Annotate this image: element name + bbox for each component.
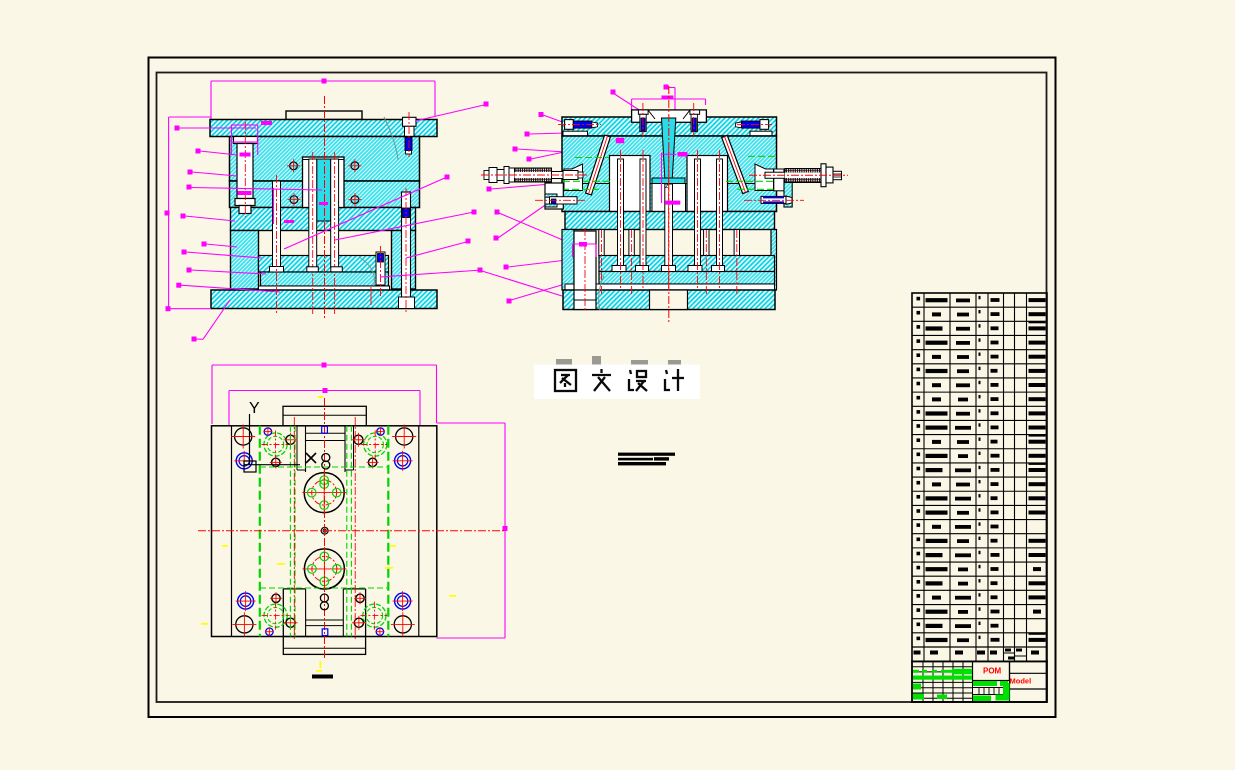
view2 right tie rod bbox=[749, 164, 848, 187]
view1 magenta vert line bbox=[273, 188, 275, 224]
view1 top boss plate bbox=[286, 111, 362, 120]
BOM table column lines bbox=[924, 293, 1027, 661]
view1 ejector retainer plate bbox=[259, 256, 389, 273]
view2 bottom notch bbox=[650, 290, 688, 310]
view3 yellow marks bbox=[201, 396, 456, 672]
view3 inner plate edges bbox=[232, 426, 419, 637]
view1 magenta tag e bbox=[284, 220, 294, 223]
view3 top slider block bbox=[283, 406, 366, 426]
leader bracket left bbox=[169, 117, 211, 309]
view3 bottom slider block bbox=[283, 589, 365, 637]
view2 left pin pocket bbox=[564, 164, 583, 191]
view1 magenta tag c bbox=[238, 191, 252, 195]
view1 magenta tag b bbox=[240, 153, 251, 157]
view1 core sleeve pin left bbox=[309, 152, 317, 316]
view1 gray arc top right bbox=[384, 117, 398, 160]
view1 core insert bbox=[303, 157, 345, 221]
svg-text:POM: POM bbox=[983, 667, 1002, 676]
view1 right spacer block bbox=[392, 231, 416, 290]
svg-text:Model: Model bbox=[1010, 677, 1032, 686]
view2 ejector base plate bbox=[599, 272, 775, 285]
view1 small screw right bbox=[376, 246, 385, 298]
view1 fixed plate A bbox=[230, 137, 420, 182]
view2 bottom clamping plate bbox=[563, 290, 775, 310]
view2 magenta top dim bbox=[613, 88, 706, 123]
view2 gray curve bbox=[599, 276, 604, 310]
view2 right ledge bbox=[750, 131, 772, 136]
view1 top clamping plate bbox=[210, 120, 437, 137]
title block left grid bbox=[912, 661, 973, 702]
watermark hanzi wen bbox=[592, 369, 611, 391]
view3 center point bbox=[321, 527, 328, 534]
view2 right bracket bbox=[784, 169, 792, 207]
view3 bottom extension plate bbox=[283, 637, 365, 655]
view3 green boss circles bbox=[262, 431, 390, 630]
watermark hanzi ji bbox=[665, 369, 684, 391]
view1 magenta dimension box bbox=[211, 81, 435, 136]
view3 small screw circles bbox=[270, 433, 379, 630]
view1 return pin bbox=[399, 188, 415, 312]
view1 sleeve pin feet bbox=[307, 267, 343, 272]
view2 top clamping plate bbox=[562, 117, 777, 136]
view3 magenta inner dim bbox=[229, 391, 420, 426]
view2 cavity insert right bbox=[687, 156, 728, 212]
title block middle grid bbox=[973, 681, 1010, 695]
view3 guide pillar holes bbox=[231, 425, 416, 637]
view3 blue gate marks bbox=[322, 426, 328, 635]
view1 stray red segment bbox=[370, 287, 372, 305]
view1 support plate bbox=[231, 208, 416, 231]
view2 ejector pins bbox=[618, 159, 723, 266]
view2 extra pin centerlines bbox=[602, 230, 737, 296]
view2 dim squares bbox=[611, 85, 669, 95]
view1 left spacer block bbox=[231, 231, 259, 290]
view3 blue bush holes bbox=[234, 451, 412, 611]
view2 center puller pocket bbox=[652, 184, 686, 212]
svg-text:Y: Y bbox=[249, 400, 260, 417]
view1 moving plate B bbox=[230, 181, 420, 208]
view1 core sleeve pin right bbox=[331, 152, 339, 316]
view2 right horizontal bolt bbox=[736, 120, 772, 130]
view2 main centerline bbox=[668, 86, 670, 322]
leader squares center column bbox=[445, 102, 544, 304]
view2 sprue bushing plate bbox=[632, 110, 707, 122]
view1 center line bbox=[324, 96, 326, 318]
view2 parting line bbox=[562, 183, 777, 185]
view3 horizontal centerline bbox=[198, 530, 505, 532]
view2 support plate bbox=[565, 212, 775, 230]
view2 A and B plate block bbox=[562, 136, 777, 212]
view3 small blue circles bbox=[263, 427, 385, 636]
view2 cavity insert left bbox=[610, 156, 651, 212]
view1 ejector base plate bbox=[261, 272, 389, 286]
view2 right angled pin bbox=[722, 135, 749, 193]
view1 magenta pillar callout box bbox=[232, 125, 258, 155]
view3 vertical centerline bbox=[324, 398, 326, 660]
BOM table row lines bbox=[912, 307, 1047, 647]
view3 datum Y bbox=[244, 400, 300, 472]
view3 magenta outer dim bbox=[212, 365, 505, 638]
watermark hanzi she bbox=[629, 370, 647, 391]
view2 pillar magenta callout bbox=[573, 242, 597, 257]
title block frame bbox=[912, 661, 1047, 702]
view1 bottom rail bbox=[259, 286, 390, 291]
view2 sprue cone bbox=[652, 118, 685, 184]
BOM header row bbox=[912, 647, 1047, 660]
leader lines center bbox=[284, 105, 616, 300]
view2 dim tag bbox=[662, 96, 674, 100]
leader lines left bbox=[179, 128, 322, 339]
BOM table outer frame bbox=[912, 293, 1047, 661]
title block POM box bbox=[973, 661, 1010, 680]
view2 right notch bbox=[774, 169, 784, 191]
watermark hanzi tu bbox=[555, 370, 576, 391]
svg-text:z: z bbox=[665, 183, 669, 190]
view2 angled pin magenta tag bbox=[616, 138, 624, 143]
view1 guide pillar bbox=[234, 122, 258, 217]
view2 right lower bolt bbox=[744, 196, 804, 204]
view3 green guide lines bbox=[260, 426, 389, 637]
view3 red ejector lines bbox=[294, 417, 355, 641]
leader squares left column bbox=[165, 126, 207, 342]
view3 inner dim square bbox=[323, 388, 328, 393]
view3 top slider channel bbox=[297, 426, 354, 472]
view2 left tie rod bbox=[481, 167, 589, 184]
view3 top locating ring bbox=[302, 471, 346, 515]
view2 left lower bracket bbox=[535, 183, 586, 209]
view2 left vertical screw bbox=[638, 103, 648, 137]
view2 support pillar bbox=[574, 228, 596, 311]
view1 bottom clamping plate bbox=[211, 290, 437, 309]
view1 screw hole circles bbox=[287, 159, 361, 206]
view3 section mark bbox=[312, 675, 333, 679]
view2 bottom rail bbox=[565, 284, 775, 290]
view2 right pin pocket bbox=[755, 164, 774, 191]
view2 ejector retainer plate bbox=[599, 256, 775, 272]
view2 left ledge bbox=[563, 131, 588, 136]
view2 right wall bbox=[771, 230, 777, 291]
view3 bottom fig8 bbox=[320, 594, 328, 610]
view3 outer dim squares bbox=[322, 363, 508, 532]
view1 gray arc bottom bbox=[359, 257, 374, 285]
note text bars bbox=[618, 453, 675, 466]
view2 green level lines bbox=[562, 156, 777, 189]
outer border frame bbox=[149, 58, 1056, 718]
view3 bottom locating ring bbox=[302, 547, 346, 591]
view2 pin feet bbox=[612, 266, 725, 272]
view1 magenta tag a bbox=[261, 121, 272, 125]
view2 sprue magenta callout bbox=[662, 152, 688, 205]
watermark gray glyph tops bbox=[556, 356, 681, 365]
view2 left horizontal bolt bbox=[558, 120, 601, 130]
view1 ejector pin bbox=[270, 175, 284, 314]
view2 left wall bbox=[562, 230, 574, 291]
title block right column bbox=[1010, 661, 1048, 702]
view2 right vertical screw bbox=[690, 103, 700, 137]
view3 plate outline bbox=[212, 426, 437, 637]
watermark white box bbox=[534, 365, 700, 400]
view1 top right cap screw bbox=[403, 112, 417, 157]
title block green bars bbox=[913, 669, 1010, 701]
BOM table entry bars bbox=[917, 296, 1046, 642]
view1 magenta tag d bbox=[319, 202, 328, 205]
view2 thin pins bbox=[599, 230, 740, 256]
view2 pin centerlines bbox=[621, 150, 720, 288]
inner border frame bbox=[157, 73, 1047, 703]
view3 datum X bbox=[306, 453, 330, 469]
view1 dim square bbox=[322, 79, 327, 84]
view2 left angled pin bbox=[586, 135, 611, 195]
